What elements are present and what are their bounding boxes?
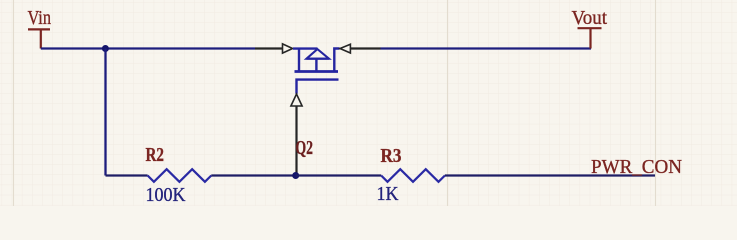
wire black segment into Q2 source arrow bbox=[255, 47, 283, 49]
wire node A down to bottom rail bbox=[104, 49, 106, 176]
port Vout terminal symbol bbox=[578, 28, 602, 48]
arrow into Q2 gate pin bbox=[291, 94, 302, 106]
resistor R3 bbox=[381, 169, 445, 182]
resistor R2 bbox=[148, 169, 212, 182]
arrow into Q2 source pin bbox=[283, 44, 293, 53]
svg-text:R3: R3 bbox=[381, 146, 402, 167]
wire R3 to net PWR_CON bbox=[445, 174, 655, 176]
wire bottom rail left corner to R2 bbox=[106, 174, 148, 176]
wire Q2 drain to Vout (top rail right, blue) bbox=[381, 47, 592, 49]
node A junction dot bbox=[102, 45, 109, 52]
transistor Q2 p-mosfet symbol bbox=[293, 49, 340, 94]
svg-text:Vin: Vin bbox=[28, 7, 52, 29]
svg-text:PWR_CON: PWR_CON bbox=[591, 156, 682, 178]
wire black segment gate arrow down to node B bbox=[295, 106, 297, 176]
svg-text:1K: 1K bbox=[377, 184, 399, 205]
wire Vin to node A (top rail left, blue) bbox=[41, 47, 255, 49]
svg-text:Q2: Q2 bbox=[296, 137, 314, 159]
wire R2 to node B bbox=[211, 174, 295, 176]
svg-text:R2: R2 bbox=[146, 145, 165, 166]
wire node B to R3 bbox=[296, 174, 382, 176]
svg-text:100K: 100K bbox=[146, 185, 186, 206]
wire black segment from Q2 drain arrow bbox=[350, 47, 380, 49]
svg-text:Vout: Vout bbox=[572, 7, 608, 29]
arrow into Q2 drain pin bbox=[340, 44, 350, 53]
port Vin terminal symbol bbox=[28, 29, 50, 48]
node B junction dot bbox=[292, 172, 299, 179]
